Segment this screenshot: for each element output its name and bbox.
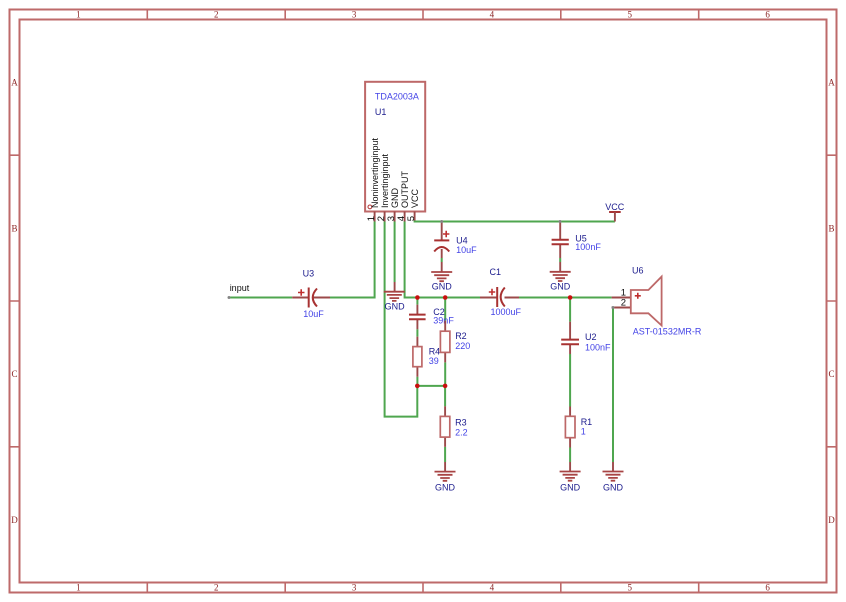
joint dot U4-VCC [440,220,443,223]
node input [228,283,250,299]
pin number 2 [376,216,387,221]
junction output-U2 [568,295,573,300]
capacitor U5 [552,222,602,272]
wire R2 branch top [444,298,446,321]
svg-text:GND: GND [435,482,456,492]
svg-text:1000uF: 1000uF [491,307,522,317]
ground under pin3 [384,282,405,312]
resistor R1 [565,407,592,448]
svg-text:GND: GND [432,282,453,292]
resistor R3 [440,406,467,447]
svg-text:A: A [828,78,835,88]
svg-text:U6: U6 [632,265,644,275]
pin number 1 [366,216,377,221]
svg-text:R1: R1 [581,417,593,427]
svg-text:10uF: 10uF [303,309,324,319]
svg-text:6: 6 [765,583,770,593]
svg-text:2.2: 2.2 [455,428,468,438]
svg-text:R4: R4 [429,346,441,356]
wire bottom node horizontal [417,385,445,387]
svg-text:GND: GND [560,482,581,492]
wire pin1 vertical [330,222,375,298]
junction output-R2 [443,295,448,300]
ground under R3 [435,462,456,492]
svg-text:3: 3 [352,583,357,593]
svg-text:1: 1 [581,427,586,437]
capacitor U2 [561,322,611,354]
wire VCC bus [415,221,615,222]
svg-text:GND: GND [550,282,571,292]
svg-text:10uF: 10uF [456,245,477,255]
svg-text:100nF: 100nF [575,242,601,252]
wire R2 to node [444,362,446,386]
svg-text:U1: U1 [375,107,387,117]
svg-text:6: 6 [765,10,770,20]
svg-text:5: 5 [628,583,633,593]
svg-text:D: D [11,515,18,525]
svg-text:AST-01532MR-R: AST-01532MR-R [633,327,702,337]
svg-text:4: 4 [490,10,495,20]
svg-text:39: 39 [429,356,439,366]
svg-text:4: 4 [490,583,495,593]
svg-text:TDA2003A: TDA2003A [375,92,419,102]
svg-text:5: 5 [406,216,417,221]
wire pin2 feedback [385,222,418,417]
wire node to R3 [444,386,446,406]
wire C2 to R4 [416,329,418,336]
capacitor U4 [434,222,477,272]
joint dot speaker pin2 [612,306,615,309]
svg-text:A: A [11,78,18,88]
svg-text:VCC: VCC [410,188,420,208]
wire R4 to node [416,377,418,386]
capacitor C2 [409,305,454,330]
svg-text:B: B [11,223,17,233]
junction node C2R4-R2 [415,384,420,389]
speaker U6 [612,265,702,336]
svg-text:U3: U3 [303,269,315,279]
resistor R2 [440,321,470,363]
svg-text:R2: R2 [455,331,467,341]
wire output bus right of C1 [519,297,612,299]
ground under U4 [431,272,452,292]
joint dot U5-VCC [559,220,562,223]
svg-text:2: 2 [214,10,219,20]
pin name VCC [410,188,420,208]
speaker pin number 2 [621,298,626,309]
svg-text:220: 220 [455,341,470,351]
svg-text:input: input [230,283,250,293]
wire C2 branch top [416,298,418,305]
pin number 4 [396,216,407,221]
svg-text:GND: GND [385,302,406,312]
junction output-C2 [415,295,420,300]
capacitor C1 [480,267,522,317]
pin number 5 [406,216,417,221]
svg-text:Noninvertinginput: Noninvertinginput [370,137,380,208]
svg-text:R3: R3 [455,418,467,428]
ground under U5 [550,272,571,292]
pin name GND [390,188,400,209]
wire pin4 output bus [405,222,480,298]
svg-text:5: 5 [628,10,633,20]
svg-text:100nF: 100nF [585,342,611,352]
svg-text:OUTPUT: OUTPUT [400,171,410,209]
svg-text:U2: U2 [585,332,597,342]
wire pin3 to ground [394,222,396,283]
junction node R2-R3 [443,384,448,389]
svg-text:2: 2 [214,583,219,593]
resistor R4 [413,337,440,377]
wire U2 branch top [569,298,571,322]
svg-text:2: 2 [621,298,626,309]
capacitor U3 [292,269,330,319]
pin name Noninvertinginput [370,137,380,208]
wire R1 to ground [569,448,571,463]
wire U4 gnd segment [441,258,443,262]
svg-text:GND: GND [390,188,400,209]
op-amp U1 [365,82,425,222]
wire R3 to ground [444,447,446,462]
wire input to pin1 [229,297,292,299]
speaker pin number 1 [621,287,626,298]
ground under speaker pin2 [603,462,624,492]
svg-text:B: B [828,223,834,233]
svg-text:C1: C1 [490,267,502,277]
wire U5 gnd segment [559,258,561,262]
svg-text:39nF: 39nF [433,315,454,325]
ground under R1 [560,462,581,492]
svg-text:1: 1 [76,583,81,593]
wire U2 to R1 [569,354,571,407]
pin name OUTPUT [400,171,410,209]
svg-text:1: 1 [76,10,81,20]
pin number 3 [386,216,397,221]
svg-text:C: C [11,369,17,379]
svg-text:Invertinginput: Invertinginput [380,153,390,208]
svg-text:D: D [828,515,835,525]
svg-text:VCC: VCC [605,202,625,212]
svg-text:GND: GND [603,482,624,492]
wire speaker pin2 to ground [612,308,613,463]
svg-text:3: 3 [352,10,357,20]
svg-text:C: C [828,369,834,379]
power VCC [605,202,625,222]
pin name Invertinginput [380,153,390,208]
